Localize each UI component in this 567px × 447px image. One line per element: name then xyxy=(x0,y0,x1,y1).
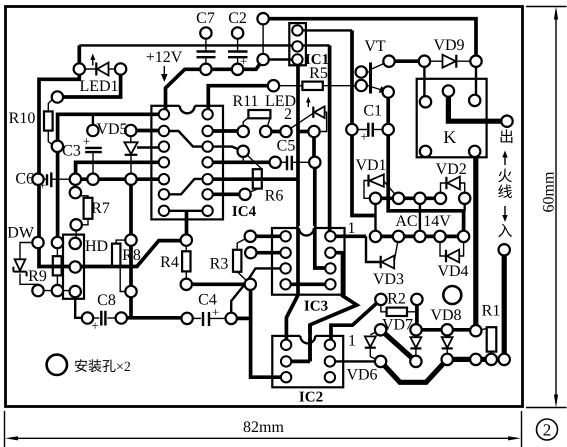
wire R8 top lead xyxy=(116,240,125,244)
wire diag into IC2 pin1 xyxy=(286,295,298,345)
svg-text:VD4: VD4 xyxy=(437,263,468,280)
svg-text:VD9: VD9 xyxy=(433,37,464,54)
diode VD3 xyxy=(380,256,382,268)
pad row179 3 at (93,179.2) xyxy=(87,174,98,185)
wire long vertical x=131 xyxy=(129,179,133,318)
IC1 connector xyxy=(289,23,306,65)
wire C4 right to vertical xyxy=(231,317,250,321)
wire VD7 stubs xyxy=(415,330,417,337)
svg-text:C7: C7 xyxy=(196,10,215,27)
capacitor C1 plates xyxy=(368,123,373,137)
wire VD6 bottom lead xyxy=(370,348,380,362)
diode VD9 xyxy=(443,55,456,68)
wire R9 top stub xyxy=(56,243,58,257)
svg-text:2: 2 xyxy=(284,106,292,123)
pad IC4 right 2 at (207.6,131) xyxy=(202,126,212,136)
wire R8 side loop xyxy=(120,267,125,292)
pad C8 C4 3 at (187.1,318.4) xyxy=(181,313,192,324)
pad IC1 1 at (297.4,30.4) xyxy=(292,25,302,35)
wire R7 stub xyxy=(74,179,76,192)
wire IC3 pin4 through xyxy=(286,282,331,286)
wire VD2 right lead xyxy=(460,183,465,198)
wire VD2 right pad stub xyxy=(464,198,466,211)
resistor R8 xyxy=(112,244,120,266)
arrow +12V xyxy=(163,66,165,76)
wire C8 leads xyxy=(88,317,100,319)
pad R2 1 at (380.9,299.4) xyxy=(375,294,386,305)
wire C7 leads xyxy=(205,33,207,51)
svg-text:1: 1 xyxy=(348,220,356,237)
pad IC4 right 3 at (207.6,146.6) xyxy=(202,141,212,151)
pad relay K 3 at (474.7,100.4) xyxy=(469,95,480,106)
transistor VT base bar xyxy=(369,63,372,94)
pad R6 C5 1 at (243.2,151.3) xyxy=(238,146,249,157)
pad C3/VD5 1 at (92.9,130.5) xyxy=(87,125,98,136)
pad C3/VD5 2 at (130.8,130.5) xyxy=(125,125,136,136)
wire VD1 left lead xyxy=(364,181,370,199)
component HD xyxy=(63,235,84,299)
pad bottom diode rows 3 at (447.2,329.8) xyxy=(442,324,453,335)
pad LED1 1 at (79.3,69) xyxy=(74,63,85,74)
wire R11 right lead xyxy=(266,118,271,132)
pad x131 1 at (131,240.1) xyxy=(125,234,136,245)
svg-text:82mm: 82mm xyxy=(243,419,284,436)
svg-text:2: 2 xyxy=(543,421,552,440)
wire IC4 internal 2 xyxy=(164,179,208,194)
wire IC4 rp4 to C5 xyxy=(208,160,276,164)
pad relay K 2 at (448.4,91) xyxy=(443,85,454,96)
wire IC4 rp2 to R11 pad xyxy=(208,129,244,133)
pad R11 LED2 row 3 at (286,131.5) xyxy=(280,126,291,137)
wire LED1 left feed xyxy=(39,45,186,266)
wire C5 leads xyxy=(275,161,286,163)
wire pad to IC3 pin2 xyxy=(251,251,286,255)
svg-text:R2: R2 xyxy=(387,291,406,308)
wire C8 to C4 xyxy=(121,316,187,320)
pad VT 3 at (389,61.2) xyxy=(383,56,394,67)
wire VD1 row rail xyxy=(376,196,441,200)
pad DW R9 HD 4 at (57.4,290.6) xyxy=(52,285,63,296)
pad top caps 6 at (263.1,59.5) xyxy=(257,54,268,65)
svg-text:+: + xyxy=(360,129,367,144)
pad OUT 1 at (507,121.2) xyxy=(501,116,512,127)
svg-text:入: 入 xyxy=(497,223,512,240)
zener DW xyxy=(15,259,26,270)
diode LED2 xyxy=(312,107,314,118)
diode VD1 xyxy=(367,175,369,187)
svg-text:R6: R6 xyxy=(265,188,284,205)
capacitor C2 plates xyxy=(228,52,248,58)
pad R2 2 at (416.9,299.4) xyxy=(411,294,422,305)
wire C1 leads xyxy=(352,129,367,131)
wire R7 bottom lead xyxy=(76,219,88,225)
svg-text:IC3: IC3 xyxy=(304,299,328,315)
pad R6 C5 2 at (245,194.3) xyxy=(239,189,250,200)
pad IC1 2 at (297.4,46.4) xyxy=(292,41,302,51)
wire VT emitter with arrow xyxy=(371,87,389,93)
diode VD5 xyxy=(124,142,137,154)
pad relay K 1 at (425.5,101.8) xyxy=(420,96,431,107)
svg-text:R10: R10 xyxy=(9,110,36,127)
pad top caps 4 at (237.6,69.3) xyxy=(232,64,243,75)
pad VD1 row 2 at (398.5,198.3) xyxy=(393,193,404,204)
pad IC3 2 at (285.6,252.7) xyxy=(280,248,290,258)
dimension 60mm xyxy=(526,7,567,408)
pad IC3 5 at (330.4,236.3) xyxy=(325,231,335,241)
svg-text:+12V: +12V xyxy=(146,49,183,66)
pad R4 1 at (186.3,240.1) xyxy=(181,234,192,245)
IC3 package xyxy=(272,228,345,295)
pad C8 C4 4 at (231.2,318.4) xyxy=(226,313,237,324)
wire VD2 left lead xyxy=(441,183,447,198)
svg-text:C6: C6 xyxy=(15,171,34,188)
pad DW R9 HD 3 at (38,290.6) xyxy=(32,285,43,296)
wire HD bottom to C8 xyxy=(75,292,87,318)
wire IC4 bottom exit xyxy=(185,211,189,240)
svg-text:VD3: VD3 xyxy=(373,271,404,288)
pad IC4 left 2 at (163.9,131) xyxy=(159,126,169,136)
wire thick diag VD7 xyxy=(381,330,416,362)
svg-text:IC4: IC4 xyxy=(232,204,257,220)
wire top power trace to VD9 right xyxy=(263,19,476,62)
capacitor C5 plates xyxy=(287,156,292,170)
svg-text:C5: C5 xyxy=(277,138,296,155)
pad bottom diode rows 7 at (447.2,359.4) xyxy=(442,354,453,365)
pad row179 4 at (131,179.2) xyxy=(125,174,136,185)
pad R11 LED2 row 4 at (314,131.5) xyxy=(308,126,319,137)
pad R5 C1 1 at (273.5,85.7) xyxy=(268,80,279,91)
pad IC4 left 4 at (163.9,162.3) xyxy=(159,157,169,167)
wire vertical x=330 xyxy=(328,45,332,236)
wire LED1 right to R10 top xyxy=(57,69,120,97)
wire y=330 rail xyxy=(416,328,476,332)
svg-text:R7: R7 xyxy=(91,200,110,217)
wire IC2 notch pass-through xyxy=(308,325,312,362)
wire VT collector xyxy=(371,61,390,69)
pad DW R9 HD 2 at (57.4,242.5) xyxy=(52,237,63,248)
svg-text:VD8: VD8 xyxy=(430,307,461,324)
wire VD9 pads into relay xyxy=(423,61,425,102)
pad DW R9 HD 6 at (75.2,267) xyxy=(70,261,81,272)
wire LED2 cathode diag xyxy=(286,113,313,131)
pad IC3 8 at (330.4,284.3) xyxy=(325,279,335,289)
pad VD1 row 5 at (464.7,198.3) xyxy=(459,193,470,204)
wire C2 leads xyxy=(237,33,239,51)
svg-text:IC2: IC2 xyxy=(299,390,323,406)
wire R3 top lead xyxy=(237,236,250,250)
pad IN 1 at (504.2,249.8) xyxy=(499,244,510,255)
wire long rail y=46 to vertical down to IC3 pin1 xyxy=(79,44,329,46)
wire IC4 rp6 to R6 pad xyxy=(208,192,245,196)
wire VD6 top lead xyxy=(370,330,380,335)
pad R6 C5 4 at (314.8,162.3) xyxy=(309,157,320,168)
svg-text:60mm: 60mm xyxy=(541,171,558,212)
wire AC row rail xyxy=(376,235,464,239)
resistor R9 xyxy=(53,256,62,275)
wire IC1 pin1 to C1 route xyxy=(297,29,352,31)
wire R6 top lead xyxy=(242,151,244,162)
pad IC1 3 at (297.4,59.5) xyxy=(292,54,302,64)
pad DW R9 HD 5 at (75.2,243.4) xyxy=(70,238,81,249)
arrow up xyxy=(504,156,506,165)
wire relay K bottom-right down xyxy=(473,151,478,330)
wire R7 top lead xyxy=(75,193,88,198)
pad R7 2 at (76.2,224.8) xyxy=(71,219,82,230)
wire R5 left lead xyxy=(274,85,303,87)
resistor R3 xyxy=(233,250,241,272)
svg-text:R8: R8 xyxy=(122,247,141,264)
pad IC3 6 at (330.4,252.7) xyxy=(325,248,335,258)
pad AC row 2 at (398.5,236.4) xyxy=(393,231,404,242)
capacitor C6 plates xyxy=(47,172,51,187)
svg-text:LED1: LED1 xyxy=(79,78,118,95)
wire VD3 right diag xyxy=(394,238,399,262)
wire IC4 internal 1 xyxy=(164,131,208,147)
wire R4 top stub xyxy=(185,240,187,251)
pad IC3 4 at (285.6,284.3) xyxy=(280,279,290,289)
wire R7 to HD xyxy=(75,225,77,244)
wire IC3 pin3 trace to C4 xyxy=(231,268,285,318)
wire IC4 internal bottom xyxy=(164,210,208,212)
pad R5 C1 2 at (351.9,129.5) xyxy=(346,124,357,135)
relay K box xyxy=(417,79,487,158)
pad IC4 left 7 at (163.9,210.8) xyxy=(159,206,169,216)
svg-text:VD7: VD7 xyxy=(382,317,413,334)
resistor R5 xyxy=(302,82,322,90)
svg-text:VD2: VD2 xyxy=(436,161,467,178)
wire IC2 lp2 rail xyxy=(286,360,310,364)
wire R9 bottom stub xyxy=(56,275,58,290)
wire LED2 anode bend xyxy=(318,112,327,131)
pad VT 1 at (361.2,72) xyxy=(356,66,367,77)
pad C8 C4 1 at (87.5,318) xyxy=(82,312,93,323)
wire R2 right down xyxy=(415,299,419,329)
wire y=284 rail xyxy=(186,282,250,286)
pad AC row 4 at (440,236.4) xyxy=(434,231,445,242)
pad VD9 1 at (424.4,61.2) xyxy=(419,56,430,67)
wire R5 right to VT base xyxy=(323,85,361,87)
wire VD4 right lead xyxy=(459,236,464,256)
svg-text:VD5: VD5 xyxy=(96,121,127,138)
wire IC4 rp3 to C5R6 pad xyxy=(208,147,244,152)
svg-text:R5: R5 xyxy=(309,65,328,82)
circled 2 xyxy=(537,419,558,440)
pad R7 1 at (75.4,192.6) xyxy=(70,187,81,198)
wire y=179 rail xyxy=(75,177,163,181)
dimension 82mm xyxy=(5,411,522,447)
resistor R4 xyxy=(182,251,190,271)
pad R6 C5 3 at (275.2,162.3) xyxy=(270,157,281,168)
wire R3 bottom lead xyxy=(237,272,250,285)
pad x131 2 at (131,291.5) xyxy=(125,286,136,297)
wire R4 bottom stub xyxy=(185,271,187,284)
pad AC row 3 at (419.9,236.4) xyxy=(414,231,425,242)
pad R3 row 2 at (250.8,252.7) xyxy=(245,247,256,258)
wire IC1 down vertical to IC3 xyxy=(296,65,300,295)
wire R3 pad to IC3 pin1 xyxy=(250,234,285,238)
wire y=114 rail and vertical to R9 xyxy=(58,114,164,242)
wire bottom zigzag xyxy=(381,359,448,382)
pad row179 1 at (38,179.2) xyxy=(32,174,43,185)
svg-text:R4: R4 xyxy=(160,254,179,271)
wire R1 top diag xyxy=(478,327,492,331)
resistor R11 xyxy=(248,110,270,118)
wire pad pair xyxy=(266,130,286,134)
wire VD1 right diag xyxy=(384,181,399,198)
wire IC4 rp5 to IC3 vertical xyxy=(208,177,298,181)
svg-text:1: 1 xyxy=(348,333,356,350)
pad top caps 1 at (205.9,33) xyxy=(200,27,211,38)
wire VD1 pad vertical xyxy=(374,198,376,236)
pad VD9 2 at (476,61.2) xyxy=(470,56,481,67)
svg-text:C3: C3 xyxy=(62,143,81,160)
svg-text:K: K xyxy=(443,127,456,147)
IC2 package xyxy=(272,336,343,387)
wire relay K to OUT pad xyxy=(448,91,507,121)
pad IC4 left 6 at (163.9,194.3) xyxy=(159,189,169,199)
svg-text:火: 火 xyxy=(497,168,512,185)
wire pad link to IC1 vertical xyxy=(298,130,314,134)
arrow down xyxy=(504,206,506,217)
wire VT emitter to C1 right and AC row xyxy=(388,92,463,236)
svg-text:R3: R3 xyxy=(210,256,229,273)
pad top caps 2 at (237.6,33) xyxy=(232,27,243,38)
pad DW R9 HD 7 at (75.2,291.5) xyxy=(70,286,81,297)
wire VD5 leads xyxy=(130,131,132,143)
capacitor C7 plates xyxy=(197,52,216,58)
wire C3 bottom lead xyxy=(92,153,94,179)
wire vertical pad link xyxy=(262,19,264,60)
pad VT 4 at (388.2,92) xyxy=(383,86,394,97)
hole circle VD8 xyxy=(443,286,461,304)
wire IC2 rp2 to VD6 pad xyxy=(330,360,381,362)
pad IC2 4 at (329.9,344.8) xyxy=(325,340,335,350)
wire R11 left lead xyxy=(243,118,248,132)
pad bottom diode rows 1 at (380.6,329.8) xyxy=(375,324,386,335)
pad bottom diode rows 10 at (504.2,359.4) xyxy=(499,354,510,365)
capacitor C8 plates xyxy=(101,311,105,326)
svg-text:14V: 14V xyxy=(423,213,451,230)
wire collector to VD9 xyxy=(389,59,424,63)
wire IC3 rp2 zigzag to IC2 xyxy=(310,253,357,362)
wire vertical x=250.6 to IC2 pin xyxy=(251,284,287,377)
pad top caps 5 at (263.1,18.7) xyxy=(257,13,268,24)
wire R2 left thick diag to IC2 pin xyxy=(331,299,381,344)
wire C7-C2 bottom rail to IC1 pad xyxy=(206,60,263,70)
svg-text:C1: C1 xyxy=(363,103,382,120)
svg-text:R9: R9 xyxy=(28,268,47,285)
pad R11 LED2 row 2 at (265.7,131.5) xyxy=(260,126,271,137)
wire y=162 rail xyxy=(76,162,164,179)
wire vertical x=314.8 to IC3 rp3 xyxy=(312,132,316,163)
wire VD8 diode stubs xyxy=(446,330,448,337)
pad IC4 left 5 at (163.9,179.2) xyxy=(159,174,169,184)
svg-text:VD6: VD6 xyxy=(346,367,377,384)
pad AC row 1 at (375.5,236.4) xyxy=(370,231,381,242)
pad AC row 5 at (463.6,236.4) xyxy=(458,231,469,242)
pad IC2 3 at (286.1,377.2) xyxy=(281,372,291,382)
capacitor C4 plates xyxy=(203,312,209,326)
svg-text:C8: C8 xyxy=(97,292,116,309)
wire VT base stubs xyxy=(361,71,370,73)
wire DW top lead xyxy=(20,243,38,260)
pad R10 1 at (57.4,97) xyxy=(52,91,63,102)
pad bottom diode rows 9 at (491.3,359.4) xyxy=(486,354,497,365)
svg-text:线: 线 xyxy=(497,184,512,201)
pad IC2 6 at (329.9,377.2) xyxy=(325,372,335,382)
pad bottom diode rows 8 at (475.8,359.4) xyxy=(470,354,481,365)
wire R1 bottom lead xyxy=(490,352,492,360)
svg-text:DW: DW xyxy=(7,225,35,242)
wire bottom row to IN vertical xyxy=(447,250,504,360)
pad DW R9 HD 1 at (38,242.5) xyxy=(32,237,43,248)
pad IC3 7 at (330.4,268.4) xyxy=(325,263,335,273)
svg-text:C4: C4 xyxy=(198,292,217,309)
pad IC2 2 at (286.1,361.4) xyxy=(281,356,291,366)
pad VD1 row 4 at (440.5,198.3) xyxy=(435,193,446,204)
svg-text:R11: R11 xyxy=(232,93,258,110)
svg-text:R1: R1 xyxy=(482,303,501,320)
capacitor C3 plates xyxy=(85,148,102,152)
pad bottom diode rows 4 at (475.8,330.7) xyxy=(470,325,481,336)
pad IC2 5 at (329.9,361.4) xyxy=(325,356,335,366)
wire row y=290.6 xyxy=(38,290,75,292)
wire VD5 pad to IC4 pin2 xyxy=(131,129,164,133)
IC4 package xyxy=(151,106,223,220)
pad IC4 left 3 at (163.9,146.6) xyxy=(159,141,169,151)
pad R5 C1 3 at (388.2,129.5) xyxy=(383,124,394,135)
svg-text:C2: C2 xyxy=(228,10,247,27)
pad IC4 left 1 at (163.9,114.3) xyxy=(159,109,169,119)
pad R3 row 3 at (250.3,284.3) xyxy=(245,279,256,290)
resistor R6 xyxy=(253,169,262,188)
wire C6 left lead xyxy=(38,178,46,180)
wire IC1 pin3 rail xyxy=(263,58,297,60)
svg-text:HD: HD xyxy=(85,238,108,255)
pad R4 2 at (186.3,284.3) xyxy=(181,279,192,290)
pad IC4 right 4 at (207.6,162.3) xyxy=(202,157,212,167)
wire C3 top stub xyxy=(92,114,94,130)
diode LED1 xyxy=(79,68,96,70)
pad IC4 right 1 at (207.6,114.3) xyxy=(202,109,212,119)
pad IC4 right 5 at (207.6,179.2) xyxy=(202,174,212,184)
resistor R10 xyxy=(44,111,53,130)
resistor R2 xyxy=(387,308,407,316)
pad IC4 right 7 at (207.6,210.8) xyxy=(202,206,212,216)
svg-text:VT: VT xyxy=(364,38,386,55)
wire AC divider xyxy=(419,198,421,236)
pad row179 2 at (75.4,179.2) xyxy=(70,174,81,185)
resistor R1 xyxy=(487,327,497,351)
wire C6 right lead xyxy=(52,178,75,180)
pad R11 LED2 row 1 at (243.2,131.5) xyxy=(238,126,249,137)
svg-text:VD1: VD1 xyxy=(355,157,386,174)
pad bottom diode rows 5 at (380.6,361.4) xyxy=(375,356,386,367)
diode VD7 xyxy=(410,337,421,348)
wire +12V feed from C7 pad down to IC4 pin1 xyxy=(166,69,206,114)
pad IC4 right 6 at (207.6,194.3) xyxy=(202,189,212,199)
wire C4 leads xyxy=(187,317,201,319)
wire DW bottom lead xyxy=(20,274,38,291)
diode VD2 xyxy=(445,177,447,189)
pad R3 row 1 at (250.3,236.3) xyxy=(245,231,256,242)
wire VD9 leads xyxy=(424,60,442,62)
pad VD1 row 3 at (419.9,198.3) xyxy=(414,193,425,204)
pad C8 C4 2 at (121.3,318) xyxy=(116,312,127,323)
pad IC3 3 at (285.6,268.4) xyxy=(280,263,290,273)
diode VD8 xyxy=(442,337,453,348)
wire R2 leads xyxy=(381,299,387,311)
